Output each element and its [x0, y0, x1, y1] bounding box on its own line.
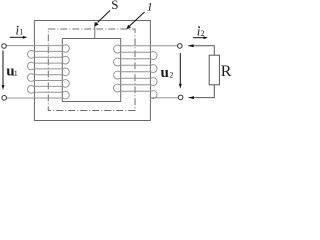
svg-text:1: 1 [14, 69, 18, 78]
svg-text:1: 1 [19, 28, 23, 37]
terminal bottom-left [2, 96, 7, 101]
voltage arrow u2 [179, 53, 181, 84]
terminal bottom-right [178, 95, 183, 100]
arrow for i1 [10, 36, 23, 38]
svg-text:S: S [111, 0, 118, 12]
svg-text:2: 2 [169, 71, 173, 80]
leader arrow from l to mean path [130, 12, 145, 26]
arrow for i2 [193, 37, 204, 39]
voltage arrow u1 [2, 51, 4, 86]
svg-text:1: 1 [147, 0, 153, 14]
winding W1 (primary, left limb) [6, 45, 69, 99]
wire: top-right to resistor [188, 46, 214, 55]
terminal top-left [2, 44, 7, 49]
mean magnetic path (dash-dot) [48, 29, 135, 111]
section line S [94, 22, 96, 39]
core window (inner outline) [62, 39, 120, 102]
current arrowhead on top-right wire [188, 44, 194, 47]
svg-text:u: u [161, 65, 169, 81]
resistor R [209, 55, 219, 85]
terminal top-right [178, 44, 183, 49]
wire: resistor to bottom-right [189, 85, 215, 98]
leader arrow from S to section line [98, 11, 111, 23]
svg-text:R: R [221, 63, 232, 80]
current arrowhead on bottom-right wire [189, 96, 195, 99]
winding W2 (secondary, right limb) [114, 45, 178, 98]
core outer outline [34, 21, 150, 121]
